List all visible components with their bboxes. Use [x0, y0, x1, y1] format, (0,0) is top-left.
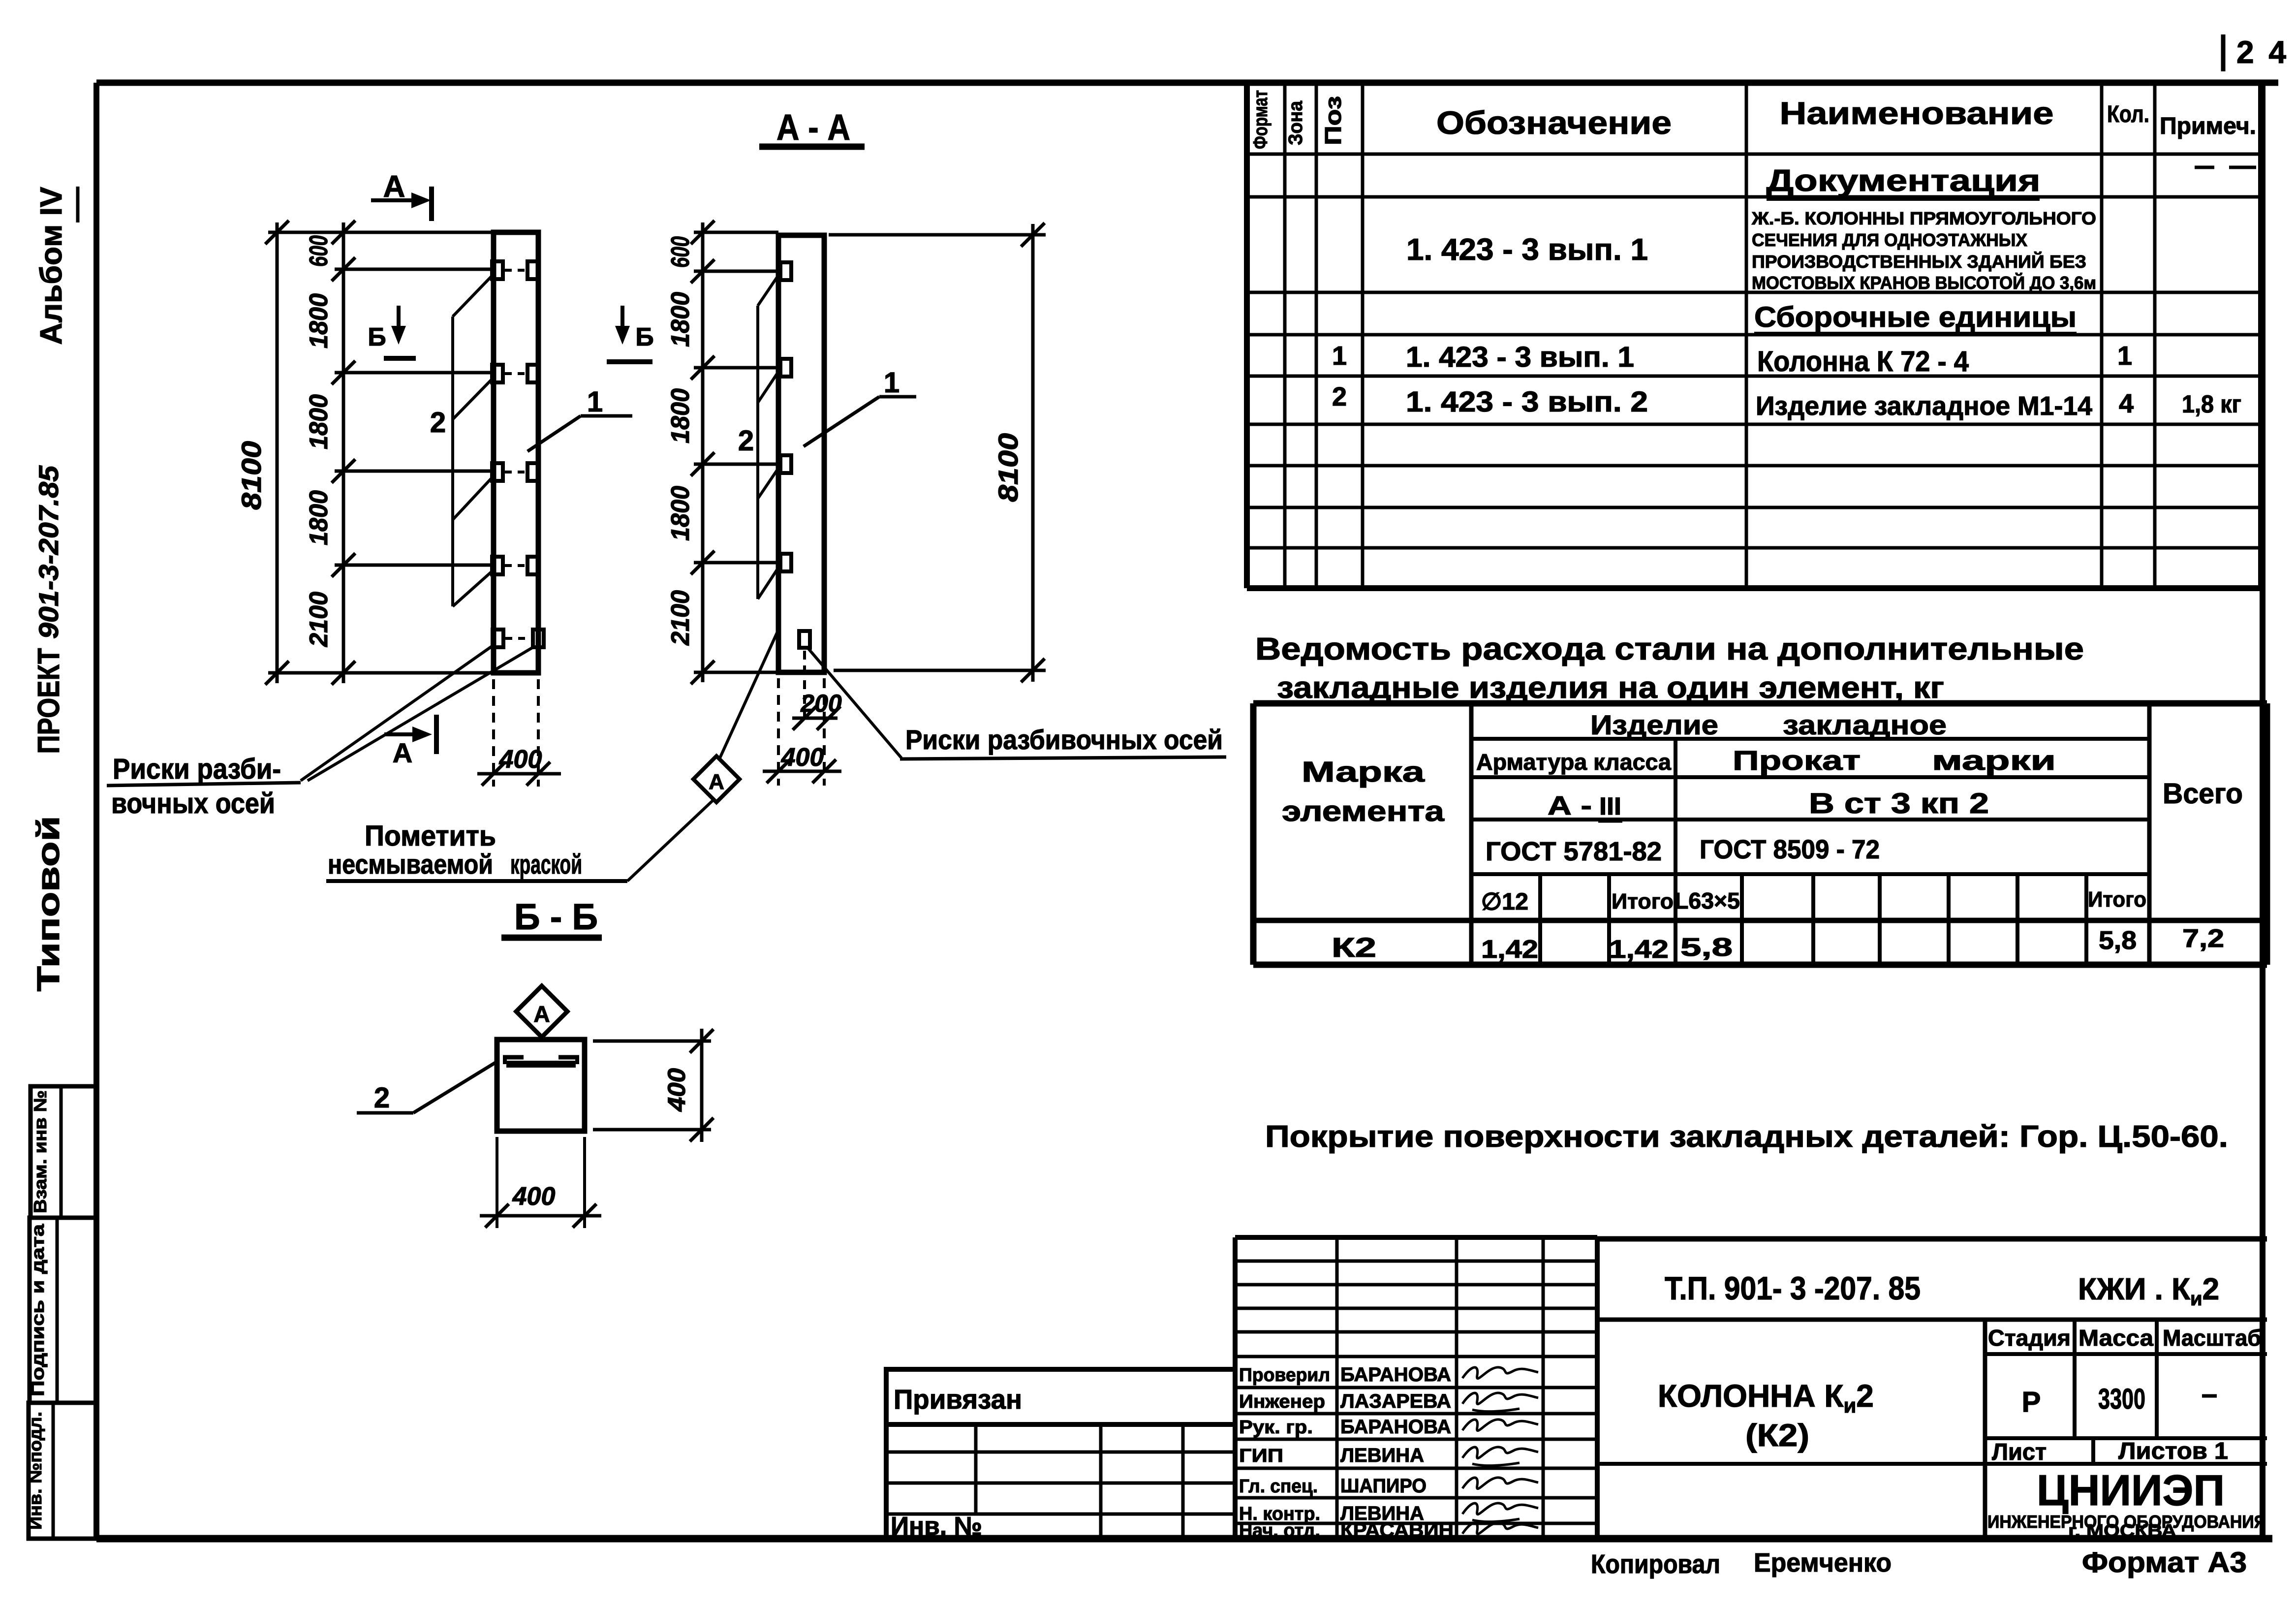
svg-text:Формат: Формат: [1250, 90, 1272, 149]
svg-text:Поз: Поз: [1320, 96, 1346, 145]
svg-text:ГИП: ГИП: [1239, 1446, 1283, 1466]
dimension 400 (section, bottom): [480, 1137, 601, 1228]
svg-text:Формат А3: Формат А3: [2082, 1547, 2247, 1578]
svg-text:1,8 кг: 1,8 кг: [2182, 390, 2241, 418]
leader to Риски разбивочных осей (view 2): [808, 649, 901, 758]
svg-text:ШАПИРО: ШАПИРО: [1340, 1475, 1427, 1497]
title block: headers Стадия Масса Масштаб: [1988, 1325, 2261, 1351]
svg-text:Изделие закладное М1-14: Изделие закладное М1-14: [1756, 391, 2092, 421]
svg-text:марки: марки: [1932, 745, 2056, 776]
svg-text:8100: 8100: [236, 441, 267, 510]
svg-text:1: 1: [1332, 341, 1347, 371]
title Б-Б: [501, 896, 602, 938]
svg-text:БАРАНОВА: БАРАНОВА: [1340, 1416, 1451, 1438]
svg-text:Риски разбивочных осей: Риски разбивочных осей: [905, 724, 1223, 755]
detail marker diamond А (section Б-Б): [516, 986, 567, 1037]
svg-text:Еремченко: Еремченко: [1754, 1548, 1892, 1578]
svg-text:600: 600: [666, 236, 695, 268]
svg-text:Обозначение: Обозначение: [1436, 104, 1672, 141]
svg-text:Риски разби-: Риски разби-: [113, 753, 281, 785]
svg-text:1800: 1800: [666, 486, 695, 541]
column K2 outline (view 1): [494, 232, 538, 673]
svg-text:Р: Р: [2022, 1386, 2041, 1418]
leader 1 (view 1): [527, 386, 632, 451]
title block: organization ЦНИИЭП: [1987, 1466, 2266, 1541]
svg-text:–: –: [2202, 1378, 2217, 1410]
page number 24: [2223, 34, 2289, 71]
svg-text:элемента: элемента: [1282, 795, 1445, 827]
leaders to Риски разбивочных осей (view 1): [301, 646, 534, 781]
svg-text:Примеч.: Примеч.: [2160, 113, 2256, 139]
embedded plates (view 2): [780, 262, 810, 648]
svg-text:Ведомость расхода стали на: Ведомость расхода стали на дополнительны…: [1255, 631, 2084, 666]
svg-text:Инв. №подл.: Инв. №подл.: [25, 1412, 45, 1530]
svg-text:вочных осей: вочных осей: [111, 788, 275, 820]
embedded plate in section: [503, 1057, 579, 1064]
svg-text:Пометить: Пометить: [365, 820, 496, 852]
svg-text:МОСТОВЫХ КРАНОВ ВЫСОТОЙ ДО 3,6: МОСТОВЫХ КРАНОВ ВЫСОТОЙ ДО 3,6м: [1752, 272, 2096, 293]
svg-text:Итого: Итого: [1612, 889, 1674, 914]
svg-text:КОЛОННА Ки2: КОЛОННА Ки2: [1658, 1378, 1874, 1417]
svg-text:Лист: Лист: [1992, 1439, 2047, 1465]
svg-text:1. 423 - 3 вып. 1: 1. 423 - 3 вып. 1: [1406, 341, 1634, 373]
dimension 400 (view 2, bottom): [763, 678, 841, 786]
box Инв. № подл.: [25, 1403, 96, 1539]
footer Копировал Еремченко: [1591, 1548, 1892, 1579]
svg-text:ЛЕВИНА: ЛЕВИНА: [1340, 1445, 1424, 1466]
svg-text:Б: Б: [368, 323, 386, 351]
svg-text:Нач. отд.: Нач. отд.: [1239, 1520, 1320, 1541]
svg-text:Подпись и дата: Подпись и дата: [28, 1224, 48, 1396]
leader 1 (view 2): [804, 367, 916, 446]
leader 2 (view 2): [738, 274, 779, 599]
svg-text:Копировал: Копировал: [1591, 1549, 1720, 1579]
svg-text:К2: К2: [1332, 932, 1376, 963]
section marker A (top): [371, 170, 432, 221]
svg-text:Проверил: Проверил: [1239, 1365, 1330, 1386]
leader 2 (view 1): [430, 274, 494, 606]
box Подпись и дата: [28, 1218, 96, 1403]
steel table cell А-III: [1548, 791, 1622, 821]
overall dimension 8100 (view 1): [236, 221, 289, 685]
svg-text:несмываемой: несмываемой: [328, 849, 493, 880]
svg-text:Масштаб: Масштаб: [2163, 1325, 2261, 1351]
svg-text:А: А: [393, 737, 412, 768]
svg-text:(К2): (К2): [1745, 1418, 1809, 1453]
svg-text:8100: 8100: [993, 433, 1024, 502]
svg-text:Прокат: Прокат: [1733, 745, 1861, 776]
svg-text:Наименование: Наименование: [1780, 95, 2054, 131]
section marker Б (view 1): [368, 306, 416, 358]
svg-text:Масса: Масса: [2079, 1325, 2153, 1351]
svg-text:Альбом IV: Альбом IV: [34, 187, 68, 345]
spec row Документация: [1767, 164, 2041, 199]
svg-text:1800: 1800: [305, 293, 333, 348]
svg-text:Привязан: Привязан: [894, 1384, 1022, 1415]
svg-text:Б: Б: [635, 323, 653, 351]
spec row 2 Примеч dashes: [2195, 166, 2214, 169]
svg-text:А -: А -: [1548, 791, 1592, 821]
svg-text:Инженер: Инженер: [1239, 1391, 1325, 1412]
svg-text:Всего: Всего: [2163, 778, 2243, 810]
svg-text:7,2: 7,2: [2182, 924, 2224, 953]
caption ПРОЕКТ 901-3-207.85 (rotated): [32, 465, 66, 754]
svg-text:5,8: 5,8: [2099, 926, 2137, 955]
svg-text:2: 2: [738, 425, 754, 457]
steel table header Изделие закладное: [1590, 709, 1947, 740]
svg-text:В ст 3 кп 2: В ст 3 кп 2: [1809, 788, 1989, 820]
title block: signature labels and names: [1239, 1364, 1454, 1541]
svg-text:КРАСАВИН: КРАСАВИН: [1340, 1519, 1454, 1541]
svg-text:ГОСТ 5781-82: ГОСТ 5781-82: [1486, 837, 1662, 866]
svg-text:2: 2: [430, 407, 446, 439]
svg-text:400: 400: [512, 1182, 556, 1211]
svg-text:Арматура класса: Арматура класса: [1476, 749, 1671, 775]
svg-text:4: 4: [2119, 389, 2134, 418]
title block: handwritten signatures: [1462, 1367, 1538, 1534]
title block: lower-left grid with Инв. №: [886, 1424, 1235, 1541]
svg-text:Инв. №: Инв. №: [891, 1512, 982, 1541]
column section square 400x400: [497, 1040, 585, 1131]
svg-text:2 4: 2 4: [2236, 34, 2289, 70]
svg-text:Б - Б: Б - Б: [514, 896, 598, 937]
column K2 outline (view 2): [778, 235, 824, 672]
svg-text:ПРОЕКТ: ПРОЕКТ: [32, 648, 66, 754]
svg-text:Итого: Итого: [2088, 887, 2146, 912]
svg-text:ЦНИИЭП: ЦНИИЭП: [2037, 1466, 2225, 1515]
svg-text:БАРАНОВА: БАРАНОВА: [1340, 1364, 1451, 1386]
svg-text:ЛАЗАРЕВА: ЛАЗАРЕВА: [1340, 1390, 1451, 1412]
svg-text:1,42: 1,42: [1609, 935, 1669, 964]
svg-text:1800: 1800: [666, 292, 695, 347]
leader 2 (section Б-Б): [357, 1061, 498, 1114]
svg-text:400: 400: [499, 745, 542, 774]
title block: Лист / Листов 1: [1992, 1438, 2228, 1465]
svg-text:1,42: 1,42: [1481, 935, 1538, 964]
caption Альбом IV (rotated): [34, 187, 78, 345]
title А-А: [759, 107, 865, 148]
title block: Привязан box: [886, 1369, 1235, 1424]
svg-text:Взам. инв №: Взам. инв №: [30, 1090, 50, 1213]
svg-text:901-3-207.85: 901-3-207.85: [33, 465, 64, 639]
svg-text:г. МОСКВА: г. МОСКВА: [2068, 1520, 2176, 1541]
steel table data row К2: [1332, 924, 2224, 964]
overall dimension 8100 (view 2): [829, 223, 1046, 682]
label Риски разбивочных осей (right): [900, 724, 1226, 759]
svg-text:Сборочные единицы: Сборочные единицы: [1754, 301, 2077, 333]
title block: name КОЛОННА Ки2 (К2): [1658, 1378, 1874, 1453]
title block: main box grid: [1597, 1239, 2267, 1539]
svg-text:закладное: закладное: [1783, 709, 1947, 740]
steel table header Прокат марки: [1733, 745, 2056, 776]
steel table grid: [1253, 703, 2267, 965]
svg-text:3300: 3300: [2098, 1383, 2145, 1415]
title block: values Р 3300 -: [2022, 1378, 2217, 1418]
svg-text:Документация: Документация: [1767, 164, 2041, 198]
dimension 200 (view 2): [792, 651, 842, 730]
svg-text:1. 423 - 3 вып. 2: 1. 423 - 3 вып. 2: [1406, 386, 1648, 418]
dimension chain 600/1800/1800/1800/2100 (view 2): [666, 221, 778, 684]
svg-text:А: А: [533, 1001, 550, 1027]
svg-text:∅12: ∅12: [1481, 889, 1528, 915]
section marker Б (view 2): [607, 306, 654, 362]
svg-text:5,8: 5,8: [1680, 933, 1733, 962]
spec row 1: Колонна К72-4: [1332, 341, 2132, 378]
svg-text:1. 423 - 3 вып. 1: 1. 423 - 3 вып. 1: [1406, 233, 1648, 267]
svg-text:200: 200: [800, 690, 842, 717]
svg-text:600: 600: [305, 235, 333, 267]
specification table grid: [1247, 83, 2261, 588]
svg-text:1800: 1800: [666, 388, 695, 443]
svg-text:Покрытие поверхности закладн: Покрытие поверхности закладных деталей: …: [1265, 1120, 2228, 1154]
svg-text:А - А: А - А: [776, 107, 850, 148]
detail marker diamond А (between views): [627, 629, 779, 881]
svg-text:Т.П. 901- 3 -207. 85: Т.П. 901- 3 -207. 85: [1665, 1270, 1921, 1306]
svg-text:Марка: Марка: [1302, 756, 1425, 788]
svg-text:L63×5: L63×5: [1675, 888, 1740, 914]
svg-text:Листов 1: Листов 1: [2118, 1438, 2228, 1464]
spec row 2: Изделие закладное М1-14: [1332, 382, 2241, 421]
section marker A (bottom): [384, 715, 436, 768]
spec row Сборочные единицы: [1754, 301, 2077, 334]
svg-text:Ж.-Б. КОЛОННЫ ПРЯМОУГОЛЬНОГО: Ж.-Б. КОЛОННЫ ПРЯМОУГОЛЬНОГО: [1751, 208, 2096, 228]
steel table title: [1255, 631, 2084, 705]
svg-text:закладные изделия на один: закладные изделия на один элемент, кг: [1277, 671, 1944, 705]
svg-text:1: 1: [884, 367, 900, 399]
svg-text:1: 1: [2117, 341, 2132, 371]
svg-text:1800: 1800: [305, 490, 333, 545]
svg-text:1800: 1800: [305, 394, 333, 449]
svg-text:2100: 2100: [305, 592, 333, 647]
title block: code КЖИ. Ки2: [2078, 1272, 2219, 1310]
svg-text:ПРОИЗВОДСТВЕННЫХ ЗДАНИЙ БЕЗ: ПРОИЗВОДСТВЕННЫХ ЗДАНИЙ БЕЗ: [1752, 251, 2086, 272]
title block: signature rows block: [1235, 1237, 1597, 1539]
svg-text:ГОСТ 8509 - 72: ГОСТ 8509 - 72: [1700, 835, 1880, 864]
svg-text:краской: краской: [510, 849, 582, 880]
svg-text:Гл. спец.: Гл. спец.: [1239, 1476, 1318, 1497]
svg-text:Зона: Зона: [1285, 100, 1306, 145]
dimension 400 (view 1, bottom): [477, 679, 561, 787]
svg-text:2100: 2100: [666, 590, 695, 646]
steel table header Марка элемента: [1282, 756, 1445, 827]
svg-text:2: 2: [374, 1082, 390, 1114]
svg-text:Колонна К 72 - 4: Колонна К 72 - 4: [1757, 346, 1969, 378]
svg-text:А: А: [383, 170, 405, 204]
svg-text:Стадия: Стадия: [1988, 1325, 2071, 1351]
label Пометить несмываемой краской: [326, 820, 627, 881]
dimension chain 600/1800/1800/1800/2100 (view 1): [268, 221, 494, 685]
svg-text:СЕЧЕНИЯ ДЛЯ ОДНОЭТАЖНЫХ: СЕЧЕНИЯ ДЛЯ ОДНОЭТАЖНЫХ: [1752, 230, 2027, 250]
svg-text:Кол.: Кол.: [2107, 101, 2149, 127]
svg-text:Изделие: Изделие: [1590, 709, 1718, 740]
svg-text:А: А: [709, 770, 724, 794]
svg-text:III: III: [1599, 792, 1621, 820]
svg-text:400: 400: [663, 1068, 690, 1112]
svg-text:Рук. гр.: Рук. гр.: [1239, 1417, 1313, 1438]
dimension 400 (section, right): [593, 1029, 714, 1142]
embedded plates (view 1, pairs with dashed axis): [492, 261, 544, 647]
svg-text:1: 1: [587, 386, 603, 418]
box Взам. инв №: [30, 1086, 96, 1218]
svg-text:400: 400: [781, 743, 824, 772]
label Риски разбивочных осей (left): [107, 753, 301, 820]
svg-text:2: 2: [1332, 382, 1347, 411]
svg-text:Типовой: Типовой: [31, 816, 66, 992]
spec row 1.423-3 вып.1 with description: [1406, 208, 2096, 293]
